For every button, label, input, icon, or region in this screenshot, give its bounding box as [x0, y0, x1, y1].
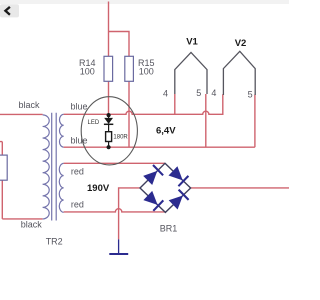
LED D (diode symbol): [108, 115, 110, 118]
wire R15 lead down through hop to heater return: [128, 81, 130, 147]
svg-text:4: 4: [211, 88, 216, 98]
wire heater return: blue lead to V1 pin5, V2 pin5: [64, 146, 255, 148]
svg-text:BR1: BR1: [160, 223, 178, 233]
svg-text:5: 5: [248, 89, 253, 99]
resistor 180R: [106, 132, 112, 142]
wire HV bottom red lead to bridge bottom corner, hop over ground wire: [64, 209, 166, 212]
svg-text:100: 100: [80, 67, 95, 77]
svg-text:LED: LED: [88, 120, 100, 126]
wire main vertical from top to R14: [108, 2, 110, 57]
wire heater A 6.4V: blue lead to V1 pin4 to V2 pin4, hops over R15 lead and V1 pin5 lead: [64, 94, 223, 114]
ellipse highlight around LED: [81, 97, 137, 165]
valve V2 envelope: [223, 51, 255, 95]
top toolbar bar: [0, 0, 289, 4]
svg-text:blue: blue: [71, 136, 88, 146]
wire V2 pin5 lead: [254, 95, 256, 148]
transformer TR2 core: [52, 113, 57, 221]
svg-text:black: black: [21, 220, 43, 230]
svg-text:180R: 180R: [113, 135, 128, 141]
svg-text:4: 4: [163, 88, 168, 98]
BR1 diode D3 (left to bottom): [143, 191, 157, 205]
wire branch to R15: [109, 32, 130, 57]
wire bridge minus to ground: [119, 188, 140, 240]
ground symbol: [118, 239, 120, 253]
node A: LED anode junction dot: [107, 113, 111, 117]
bridge rectifier BR1 diamond: [140, 163, 191, 212]
wire V1 pin5 lead: [205, 94, 207, 147]
svg-text:5: 5: [196, 88, 201, 98]
svg-text:TR2: TR2: [46, 237, 63, 247]
back button: [0, 4, 19, 17]
wire primary top black lead: [0, 113, 43, 115]
svg-text:100: 100: [139, 67, 154, 77]
wire V1 pin4 stub: [174, 94, 176, 114]
svg-text:blue: blue: [71, 102, 88, 112]
back chevron icon: [5, 7, 9, 15]
svg-text:6,4V: 6,4V: [156, 125, 176, 136]
svg-text:V2: V2: [235, 38, 247, 49]
svg-text:black: black: [19, 100, 41, 110]
svg-text:190V: 190V: [87, 183, 110, 194]
transformer TR2 secondary 6.4V winding (blue): [59, 114, 63, 147]
svg-text:red: red: [71, 200, 84, 210]
wire HV top red lead to bridge top corner: [64, 162, 165, 164]
wire bridge plus output to right edge: [191, 187, 289, 189]
BR1 diode D1 (left to top): [143, 171, 157, 185]
svg-text:red: red: [71, 167, 84, 177]
BR1 diode D2 (top to right): [169, 166, 183, 180]
transformer TR2 secondary 190V winding (red): [59, 163, 63, 212]
wire R14 lead to LED node: [108, 81, 110, 114]
svg-text:V1: V1: [186, 37, 198, 48]
resistor R14: [104, 56, 113, 81]
BR1 diode D4 (bottom to right): [169, 196, 183, 210]
resistor R15: [125, 56, 134, 81]
transformer TR2 primary winding: [43, 115, 50, 219]
resistor on primary lead (left edge): [0, 155, 7, 180]
valve V1 envelope: [175, 52, 207, 94]
wire primary bottom black lead: [0, 142, 43, 219]
node B: 180R cathode junction dot: [107, 145, 111, 149]
